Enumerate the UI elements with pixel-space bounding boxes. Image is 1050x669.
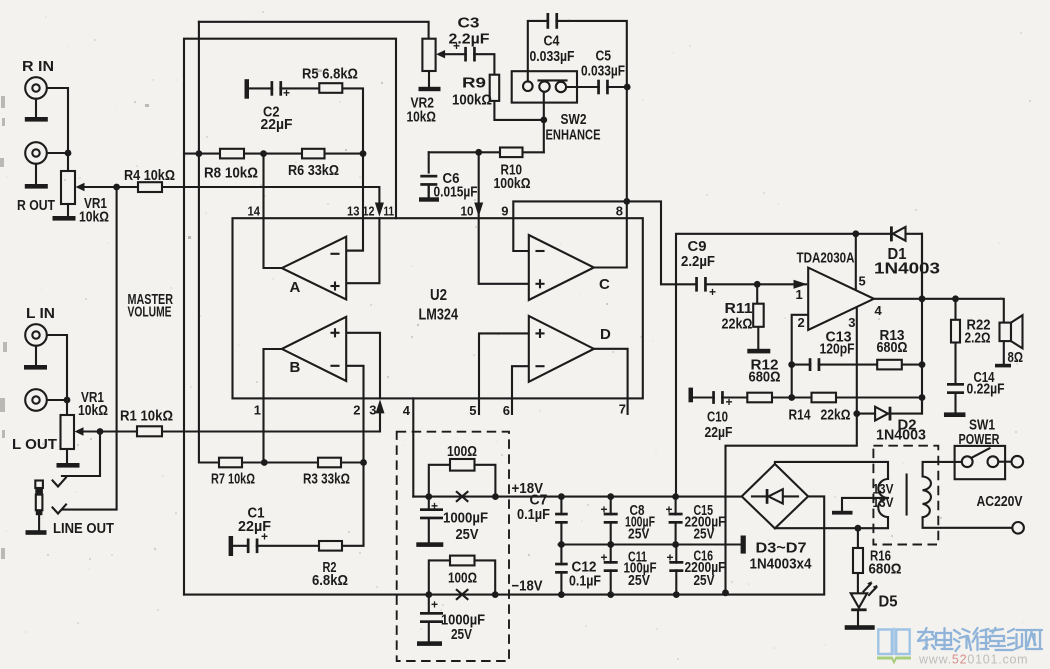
dashed regulator box xyxy=(397,432,509,661)
svg-text:25V: 25V xyxy=(628,573,650,589)
resistor R1 xyxy=(137,426,162,436)
capacitor C2 xyxy=(273,80,279,97)
node R3 right pin2 xyxy=(360,459,367,466)
wire R22/C14 branch xyxy=(954,299,956,320)
potentiometer VR2 xyxy=(422,39,435,71)
node R14 right xyxy=(919,394,926,401)
svg-text:LM324: LM324 xyxy=(419,307,459,324)
wire C6 branch xyxy=(428,152,430,172)
svg-text:120pF: 120pF xyxy=(820,342,855,358)
svg-text:100kΩ: 100kΩ xyxy=(494,176,531,192)
svg-text:22µF: 22µF xyxy=(261,117,293,133)
svg-text:L IN: L IN xyxy=(26,306,55,322)
svg-text:C: C xyxy=(599,276,610,293)
wire opamp C output to pin8 xyxy=(594,201,627,267)
wire C13/R13 feedback row xyxy=(792,364,922,366)
wire opamp D output to pin7 stub xyxy=(594,349,628,414)
capacitor C1 xyxy=(250,538,256,555)
line out jack xyxy=(35,481,43,489)
capacitor C10 ground plate xyxy=(689,388,694,403)
ground for R OUT xyxy=(35,164,37,184)
svg-text:U2: U2 xyxy=(430,287,447,304)
svg-text:0.033µF: 0.033µF xyxy=(530,49,575,65)
svg-text:C10: C10 xyxy=(707,410,728,426)
potentiometer VR1 (left channel) xyxy=(61,415,75,449)
node R6 right pin13 xyxy=(360,150,367,157)
resistor R6 xyxy=(302,149,325,159)
svg-text:10kΩ: 10kΩ xyxy=(78,403,108,419)
scan noise marks xyxy=(0,70,322,560)
svg-text:0.1µF: 0.1µF xyxy=(569,574,601,590)
svg-text:R1 10kΩ: R1 10kΩ xyxy=(120,409,173,425)
capacitor C9 xyxy=(698,276,704,293)
ground for L OUT jack is below VR1L xyxy=(64,397,71,404)
wire D5 to ground xyxy=(857,610,859,625)
svg-text:25V: 25V xyxy=(694,527,715,543)
resistor R8 xyxy=(220,149,244,159)
resistor R7 xyxy=(219,458,242,468)
svg-text:2.2Ω: 2.2Ω xyxy=(965,331,991,347)
wire L IN jack to VR1L top xyxy=(47,335,67,415)
wire C16 column xyxy=(675,545,677,595)
wire -18V loop: pin11 around left side xyxy=(184,39,396,595)
svg-text:100kΩ: 100kΩ xyxy=(452,93,492,109)
svg-text:1000µF: 1000µF xyxy=(443,511,488,527)
op-amp U2B xyxy=(282,317,346,381)
wire TDA pin3 to -18V xyxy=(726,306,857,593)
ground transformer centre tap xyxy=(832,511,853,515)
svg-text:−18V: −18V xyxy=(512,579,543,595)
wire C2/R5 row and pin13 drop xyxy=(249,88,363,250)
node C9/R11 xyxy=(754,281,761,288)
wire C6 to ground xyxy=(428,185,430,197)
svg-text:www.520101.com: www.520101.com xyxy=(918,653,1029,667)
svg-text:680Ω: 680Ω xyxy=(749,370,781,386)
jack R IN xyxy=(25,77,47,99)
svg-text:D3~D7: D3~D7 xyxy=(756,540,807,557)
svg-text:0.1µF: 0.1µF xyxy=(517,507,550,523)
svg-text:C9: C9 xyxy=(688,239,707,255)
svg-text:9: 9 xyxy=(501,204,508,219)
wire R IN jack to VR1 top xyxy=(47,88,68,171)
wire R9 to SW2 pole node xyxy=(494,101,543,120)
svg-text:11: 11 xyxy=(384,204,395,219)
wire transformer secondary bottom row xyxy=(775,517,888,528)
wire C10/R12/R14 row xyxy=(693,396,922,398)
wire pin14 node to opamp A output xyxy=(264,154,283,268)
svg-text:2.2µF: 2.2µF xyxy=(681,254,715,270)
ground for VR2 xyxy=(419,87,441,91)
wire R8 row xyxy=(184,153,363,155)
svg-text:+: + xyxy=(431,598,438,612)
svg-text:B: B xyxy=(290,359,301,376)
wire C14 to ground xyxy=(954,394,956,413)
svg-text:6.8kΩ: 6.8kΩ xyxy=(312,573,348,589)
svg-text:ENHANCE: ENHANCE xyxy=(546,128,601,144)
wire opamp A minus input xyxy=(346,250,363,252)
AC terminal upper xyxy=(1012,456,1024,468)
svg-text:R8 10kΩ: R8 10kΩ xyxy=(204,165,258,181)
wire opamp A plus input from pin12 xyxy=(346,218,379,283)
node C13/R13 right xyxy=(919,361,926,368)
svg-text:TDA2030A: TDA2030A xyxy=(797,250,855,267)
transformer T1 dashed box xyxy=(873,446,938,545)
svg-text:5: 5 xyxy=(859,274,866,289)
svg-text:L OUT: L OUT xyxy=(12,437,57,453)
svg-text:22kΩ: 22kΩ xyxy=(722,317,753,333)
op-amp U2D xyxy=(529,316,594,382)
resistor R13 xyxy=(877,360,902,370)
node R10 left xyxy=(475,149,482,156)
svg-text:22µF: 22µF xyxy=(705,425,733,441)
wire TDA V+ top rail xyxy=(676,234,922,497)
wire transformer centre tap xyxy=(842,498,888,511)
wire R11 to ground xyxy=(757,327,759,349)
svg-text:100Ω: 100Ω xyxy=(447,444,477,460)
wire opamp D minus to pin6 stub xyxy=(512,366,529,414)
svg-text:25V: 25V xyxy=(456,527,479,543)
svg-text:12: 12 xyxy=(363,204,375,219)
resistor R9 xyxy=(490,75,500,101)
wire C7 column xyxy=(560,497,562,545)
line out switch contact upper xyxy=(53,478,67,487)
svg-text:VOLUME: VOLUME xyxy=(128,305,172,321)
svg-text:3: 3 xyxy=(369,403,376,418)
svg-text:7: 7 xyxy=(619,402,626,417)
wire TDA pin5 stub xyxy=(855,234,857,291)
capacitor C12 xyxy=(554,565,569,571)
potentiometer VR1 (right channel) xyxy=(61,171,75,204)
wire TDA pin2 to feedback node xyxy=(792,315,809,398)
wire C12 column xyxy=(560,545,562,595)
IC U2 LM324 box xyxy=(233,218,643,398)
wire C15 column xyxy=(675,497,677,545)
node mid rail dots xyxy=(558,541,565,548)
wire R16 branch xyxy=(857,528,859,548)
wire output node down D1/D2 column xyxy=(921,234,923,414)
jack L OUT xyxy=(25,389,47,411)
resistor R14 xyxy=(812,393,837,403)
switch SW2 xyxy=(512,71,577,102)
wire speaker to ground xyxy=(1003,341,1005,363)
svg-text:2.2µF: 2.2µF xyxy=(449,32,490,48)
svg-text:22µF: 22µF xyxy=(238,519,271,535)
resistor R12 xyxy=(747,393,772,403)
node secondary/R16 xyxy=(855,525,862,532)
wire +V top rail to VR2 xyxy=(199,22,429,39)
node R9/SW2 xyxy=(540,117,547,124)
wire +18V rail xyxy=(413,496,741,498)
node pin2/C13 xyxy=(788,361,795,368)
ground for R11 xyxy=(747,349,770,354)
wire TDA output to speaker xyxy=(874,299,1004,323)
wire pin2 drop to R3/R2 xyxy=(342,366,364,546)
capacitor C10 xyxy=(715,390,721,405)
wire pin1 from opamp B output xyxy=(264,349,283,463)
svg-text:0.015µF: 0.015µF xyxy=(434,185,478,201)
wire SW1 to AC terminal xyxy=(998,461,1011,463)
svg-text:C4: C4 xyxy=(544,34,560,50)
transformer core xyxy=(906,475,908,515)
watermark logo book icon xyxy=(878,628,909,656)
wire VR2 wiper to C3 xyxy=(443,53,466,55)
svg-text:4: 4 xyxy=(403,403,411,418)
jack R OUT xyxy=(25,142,47,164)
svg-text:25V: 25V xyxy=(694,573,715,589)
svg-text:1N4003x4: 1N4003x4 xyxy=(750,556,813,573)
ground for L IN xyxy=(35,346,37,365)
node R channel input xyxy=(65,150,72,157)
speaker 8 ohm xyxy=(1000,323,1012,342)
svg-text:10kΩ: 10kΩ xyxy=(407,110,437,126)
wire R OUT jack to node xyxy=(47,152,68,154)
svg-text:680Ω: 680Ω xyxy=(869,561,902,578)
node D2 left xyxy=(853,410,860,417)
wire opamp D plus to pin5 stub xyxy=(479,333,529,414)
svg-text:8Ω: 8Ω xyxy=(1008,350,1024,366)
AC terminal lower xyxy=(1012,522,1024,534)
wire R11 branch xyxy=(756,284,758,303)
wire bridge AC1 to transformer secondary top xyxy=(775,462,888,479)
node output xyxy=(919,295,926,302)
transformer primary winding xyxy=(923,477,931,518)
node R4 left xyxy=(113,184,120,191)
wire opamp C plus from pin10 xyxy=(479,152,529,283)
svg-text:10kΩ: 10kΩ xyxy=(79,210,109,226)
wire R10 row xyxy=(429,151,544,153)
resistor R4 xyxy=(138,182,162,192)
resistor R5 xyxy=(319,83,342,93)
ground for D5 xyxy=(845,625,875,630)
node C5/C4/pin8 xyxy=(624,84,631,91)
wire pin4 to +18V rail xyxy=(412,398,414,496)
svg-text:0.033µF: 0.033µF xyxy=(581,64,625,80)
resistor R22 xyxy=(951,320,960,343)
wire -18V rail xyxy=(184,496,824,594)
svg-text:13: 13 xyxy=(347,204,360,219)
svg-text:6: 6 xyxy=(503,403,510,418)
svg-text:+: + xyxy=(709,285,716,299)
svg-text:100Ω: 100Ω xyxy=(448,571,477,587)
wire opamp B plus input from pin3 xyxy=(346,333,380,399)
svg-text:+: + xyxy=(726,395,733,409)
svg-text:1N4003: 1N4003 xyxy=(876,427,926,444)
capacitor C6 xyxy=(419,178,438,184)
svg-text:A: A xyxy=(290,279,301,296)
wire R7/R3 row xyxy=(219,461,364,463)
op-amp U2C xyxy=(529,235,594,300)
svg-text:10: 10 xyxy=(461,204,474,219)
svg-text:25V: 25V xyxy=(451,627,472,643)
resistor R10 xyxy=(500,148,523,158)
node TDA V+ / D1 xyxy=(852,230,859,237)
wire SW2 to C5 xyxy=(566,86,599,88)
svg-text:4: 4 xyxy=(875,303,883,318)
jack L IN xyxy=(25,324,47,346)
watermark chinese text xyxy=(918,628,1042,651)
wire C4 to C5 node xyxy=(556,21,627,202)
svg-text:0.22µF: 0.22µF xyxy=(967,382,1005,398)
wire R22 to C14 xyxy=(954,343,956,384)
resistor 100ohm upper with fuse link xyxy=(429,465,450,497)
wire C9 to TDA pin1 xyxy=(706,283,806,285)
node R8 left xyxy=(196,150,203,157)
wire C5 to node xyxy=(607,86,627,88)
resistor R3 xyxy=(318,458,341,468)
amplifier U3 TDA2030A xyxy=(808,268,874,330)
svg-text:D5: D5 xyxy=(879,594,898,611)
wire C1/R2 row xyxy=(233,545,319,547)
capacitor C14 xyxy=(946,386,965,392)
svg-text:22kΩ: 22kΩ xyxy=(821,408,851,424)
svg-text:R3 33kΩ: R3 33kΩ xyxy=(303,472,350,488)
op-amp U2A xyxy=(282,237,346,300)
wire mid ground rail xyxy=(559,543,741,545)
diode D2 xyxy=(875,407,888,421)
wire pin9 feedback from pin8 node xyxy=(513,201,696,284)
wire VR1R wiper to R4 to U2 pin12 xyxy=(82,187,379,204)
ground for R IN xyxy=(35,99,37,117)
svg-text:R14: R14 xyxy=(789,408,811,424)
svg-text:SW2: SW2 xyxy=(561,112,587,128)
node R7/R3 pin1 xyxy=(261,459,268,466)
wire VR1L wiper to R1 to U2 pin3 xyxy=(81,413,380,432)
svg-text:1: 1 xyxy=(254,403,261,418)
diode D1 xyxy=(890,226,893,241)
wire C3 to R9 xyxy=(474,54,494,74)
arrow into TDA pin1 xyxy=(794,280,808,289)
node output R22 xyxy=(952,295,959,302)
svg-text:R4 10kΩ: R4 10kΩ xyxy=(124,168,175,184)
node R8/R6 pin14 xyxy=(260,150,267,157)
svg-text:+: + xyxy=(283,86,290,100)
capacitor C4 xyxy=(549,12,555,30)
wire L OUT jack to node xyxy=(47,399,67,401)
wire D2 row xyxy=(857,398,922,414)
svg-text:680Ω: 680Ω xyxy=(877,340,908,356)
svg-text:C5: C5 xyxy=(596,49,612,65)
svg-text:POWER: POWER xyxy=(959,432,1000,448)
capacitor C7 xyxy=(554,515,569,521)
svg-text:5: 5 xyxy=(469,403,476,418)
svg-text:2: 2 xyxy=(798,315,805,330)
svg-text:R OUT: R OUT xyxy=(17,198,55,214)
resistor R16 xyxy=(853,548,863,573)
svg-text:R IN: R IN xyxy=(22,59,54,75)
resistor R2 xyxy=(319,541,342,551)
LED D5 xyxy=(851,593,867,608)
wire SW2 pole down to R10 row xyxy=(543,92,545,153)
wire C11 column xyxy=(610,545,612,595)
svg-text:1: 1 xyxy=(796,287,803,302)
wire x=199 from top rail down to R7 xyxy=(199,22,219,463)
line out switch contact lower xyxy=(53,505,67,514)
wire master volume link down to line-out switch xyxy=(62,187,117,510)
svg-text:1N4003: 1N4003 xyxy=(874,261,940,278)
svg-text:3: 3 xyxy=(848,315,855,330)
capacitor C5 xyxy=(600,79,606,96)
capacitor C13 xyxy=(811,357,817,372)
svg-text:LINE OUT: LINE OUT xyxy=(53,521,114,537)
svg-text:R7 10kΩ: R7 10kΩ xyxy=(211,472,255,488)
capacitor C1 ground plate xyxy=(229,536,234,556)
wire R1 node to line-out switch xyxy=(62,432,100,477)
svg-text:2: 2 xyxy=(353,403,360,418)
svg-text:R6 33kΩ: R6 33kΩ xyxy=(288,163,339,179)
svg-text:14: 14 xyxy=(248,204,261,219)
wire C8 column xyxy=(610,497,612,545)
svg-text:C3: C3 xyxy=(458,16,480,32)
capacitor C2 ground plate xyxy=(245,79,250,99)
switch SW1 POWER xyxy=(955,446,1006,479)
svg-text:13V: 13V xyxy=(873,495,894,510)
svg-text:D: D xyxy=(600,326,611,343)
wire transformer primary bottom to AC terminal xyxy=(923,517,1013,528)
node pin2/R14 xyxy=(788,394,795,401)
node -18V dots xyxy=(425,591,432,598)
transformer secondary winding 13V+13V xyxy=(878,479,888,517)
wire C4 branch over SW2 xyxy=(528,21,548,82)
capacitor C3 xyxy=(467,46,473,63)
bridge rectifier D3-D7 xyxy=(742,464,808,528)
svg-text:R11: R11 xyxy=(725,301,753,317)
svg-text:25V: 25V xyxy=(628,527,650,543)
svg-text:R5 6.8kΩ: R5 6.8kΩ xyxy=(302,67,358,83)
wire R16 to LED D5 xyxy=(857,573,859,593)
node pin8 feedback xyxy=(623,198,630,205)
ground plate mid rail xyxy=(741,536,746,554)
node R1 left xyxy=(97,428,104,435)
resistor R11 xyxy=(753,304,764,327)
node +18V dots xyxy=(425,493,432,500)
resistor 100ohm lower with fuse link xyxy=(429,560,450,594)
wire transformer primary to SW1 xyxy=(923,462,962,477)
svg-text:8: 8 xyxy=(616,204,623,219)
svg-text:AC220V: AC220V xyxy=(977,494,1023,510)
svg-text:R9: R9 xyxy=(462,76,486,92)
